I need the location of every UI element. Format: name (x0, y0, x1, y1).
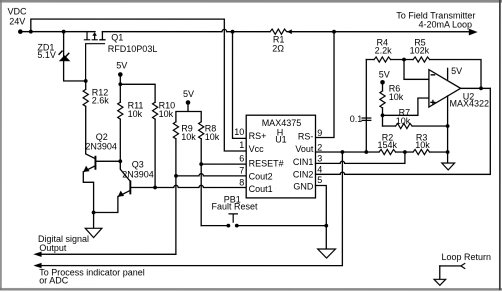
ground R3 U2 (442, 163, 455, 170)
svg-text:2Ω: 2Ω (272, 43, 284, 53)
svg-text:Vcc: Vcc (249, 144, 265, 154)
junction 24V rail tap (29, 30, 33, 34)
svg-text:Cout1: Cout1 (249, 184, 273, 194)
svg-text:102k: 102k (410, 46, 430, 56)
capacitor C1 0.1 (350, 60, 371, 153)
svg-text:Q2: Q2 (96, 132, 108, 142)
wire 24V rail to U1 Vcc pin 1 (31, 19, 246, 151)
junction Vout C1 tap (364, 150, 368, 154)
svg-text:CIN1: CIN1 (293, 157, 314, 167)
svg-text:Output: Output (39, 243, 67, 253)
wire PB1 right contact to ground line (239, 225, 327, 227)
wire R3 to ground node (430, 151, 448, 153)
wire loop line from Q1 drain with crossover hop (102, 29, 270, 31)
node 5V supply stub U2 (448, 66, 463, 79)
svg-text:3: 3 (317, 153, 322, 163)
svg-text:5: 5 (317, 175, 322, 185)
svg-text:4-20mA Loop: 4-20mA Loop (419, 19, 473, 29)
svg-text:5V: 5V (379, 70, 390, 80)
junction R3 ground node (446, 150, 450, 154)
svg-text:GND: GND (293, 181, 314, 191)
wire CIN1 row from U1 pin 3 with hop (315, 152, 404, 163)
wire CIN2 row from U1 pin 4 to op-amp output (315, 88, 490, 174)
svg-text:5V: 5V (116, 60, 127, 70)
svg-text:Vout: Vout (295, 144, 314, 154)
wire R2 R3 link (396, 151, 413, 153)
svg-text:Cout2: Cout2 (249, 172, 273, 182)
resistor R11 10k (118, 100, 144, 161)
svg-text:Loop Return: Loop Return (441, 252, 491, 262)
svg-text:10k: 10k (415, 140, 430, 150)
wire Q2 emitter to common node (83, 172, 93, 213)
wire op-amp V- to ground (447, 96, 449, 163)
junction R2 R3 CIN1 node (403, 150, 407, 154)
node 5V supply terminal for R11 R10 (116, 60, 127, 76)
resistor R7 10k (383, 108, 448, 129)
svg-text:9: 9 (317, 128, 322, 138)
resistor R9 10k (173, 122, 196, 255)
svg-text:CIN2: CIN2 (293, 169, 314, 179)
ground loop return (434, 279, 446, 285)
wire digital signal output (33, 234, 176, 257)
zener ZD1 5.1V (37, 42, 69, 61)
junction RS+ tap (231, 30, 235, 34)
svg-text:RFD10P03L: RFD10P03L (108, 44, 158, 54)
svg-text:10k: 10k (396, 116, 411, 126)
svg-text:10: 10 (234, 127, 244, 137)
resistor R5 102k (410, 38, 430, 63)
svg-text:5V: 5V (451, 66, 462, 76)
junction Vout panel tap (340, 150, 344, 154)
resistor R4 2.2k (374, 38, 392, 63)
wire Cout2 row to U1 pin 7 with hop (176, 174, 246, 176)
svg-text:2N3904: 2N3904 (85, 142, 117, 152)
junction Q2 base node (118, 159, 122, 163)
resistor R2 154k (377, 132, 397, 154)
wire Q3 collector to Q2 base (120, 161, 130, 181)
svg-text:Q3: Q3 (132, 160, 144, 170)
resistor R8 10k (199, 122, 220, 226)
svg-text:5V: 5V (183, 89, 194, 99)
svg-text:Q1: Q1 (111, 32, 123, 42)
wire Cout1 row to U1 pin 8 with hops (155, 185, 246, 187)
svg-text:154k: 154k (377, 140, 397, 150)
resistor R12 2.6k (83, 81, 109, 159)
wire 5V feed to R11 R10 (120, 74, 155, 102)
svg-text:0.1: 0.1 (350, 114, 363, 124)
junction R9 Cout2 (174, 174, 178, 178)
svg-text:RS-: RS- (298, 131, 314, 141)
svg-text:10k: 10k (159, 109, 174, 119)
wire inverting input (404, 60, 428, 80)
junction ZD1 cathode node (62, 30, 66, 34)
svg-text:RESET#: RESET# (249, 158, 284, 168)
wire R8 branch to PB1 left contact (201, 225, 226, 227)
arrow to field transmitter 4-20mA loop (396, 11, 477, 36)
svg-text:5.1V: 5.1V (37, 50, 56, 60)
wire Vout row from U1 pin 2 (315, 151, 379, 153)
wire RESET# row to U1 pin 6 (201, 163, 246, 165)
wire op-amp output (461, 87, 491, 89)
svg-text:10k: 10k (389, 92, 404, 102)
node 5V supply terminal for R9 R8 (183, 89, 194, 105)
svg-text:or ADC: or ADC (39, 276, 69, 286)
svg-text:24V: 24V (9, 16, 25, 26)
junction R10 Q3 base Cout1 (153, 186, 157, 190)
wire 5V feed to R9 R8 (176, 102, 201, 121)
junction R7 ground node (446, 124, 450, 128)
wire ZD1 branch to gate node (64, 32, 86, 81)
junction RS- tap (332, 30, 336, 34)
svg-text:10k: 10k (181, 132, 196, 142)
wire Q3 emitter to common node (94, 196, 118, 212)
wire 24V feed to Q1 source (20, 31, 95, 33)
svg-text:2.2k: 2.2k (375, 46, 393, 56)
terminal loop return (440, 252, 491, 279)
svg-text:U1: U1 (275, 135, 287, 145)
transistor Q3 2N3904 (118, 160, 155, 197)
wire Vout to process indicator panel (33, 152, 342, 286)
svg-text:10k: 10k (205, 132, 220, 142)
svg-text:VDC: VDC (8, 6, 28, 16)
junction output feedback node (479, 86, 483, 90)
wire R4 R5 feedback row (366, 60, 481, 89)
node 5V supply terminal for R6 (379, 70, 390, 85)
node VDC 24V supply terminal (8, 6, 28, 34)
svg-text:4: 4 (317, 164, 322, 174)
svg-text:Fault Reset: Fault Reset (211, 202, 258, 212)
wire loop line to field transmitter (288, 31, 470, 33)
resistor R1 2 ohm (270, 29, 292, 53)
svg-text:2: 2 (317, 142, 322, 152)
resistor R10 10k (152, 100, 175, 187)
svg-text:6: 6 (239, 153, 244, 163)
junction R6 R7 divider node (381, 113, 385, 117)
svg-text:1: 1 (239, 140, 244, 150)
resistor R6 10k (380, 82, 404, 126)
junction R4 R5 node (402, 58, 406, 62)
svg-text:RS+: RS+ (249, 131, 267, 141)
junction emitter common node (92, 211, 96, 215)
junction PB1 ground tap (324, 224, 328, 228)
IC U1 MAX4375 (246, 115, 315, 198)
junction R8 RESET# (199, 162, 203, 166)
svg-text:8: 8 (239, 177, 244, 187)
wire U1 GND pin 5 to ground (315, 186, 326, 250)
op-amp U2 MAX4322 (429, 70, 489, 109)
pushbutton PB1 Fault Reset (211, 194, 258, 227)
junction Q1 gate node (84, 79, 88, 83)
transistor Q2 2N3904 (83, 132, 120, 172)
svg-text:10k: 10k (128, 109, 143, 119)
wire RS- to U1 pin 9 (316, 32, 335, 138)
resistor R3 10k (413, 132, 430, 154)
wire non-inverting input (383, 98, 429, 115)
ground U1 GND (318, 249, 336, 258)
transistor Q1 RFD10P03L p-MOSFET (84, 32, 157, 81)
svg-text:7: 7 (239, 166, 244, 176)
ground Q2 Q3 emitters (85, 212, 102, 237)
junction 5V split (118, 82, 122, 86)
svg-text:MAX4322: MAX4322 (450, 99, 490, 109)
wire RS+ to U1 pin 10 (233, 32, 247, 139)
svg-text:2.6k: 2.6k (92, 95, 110, 105)
